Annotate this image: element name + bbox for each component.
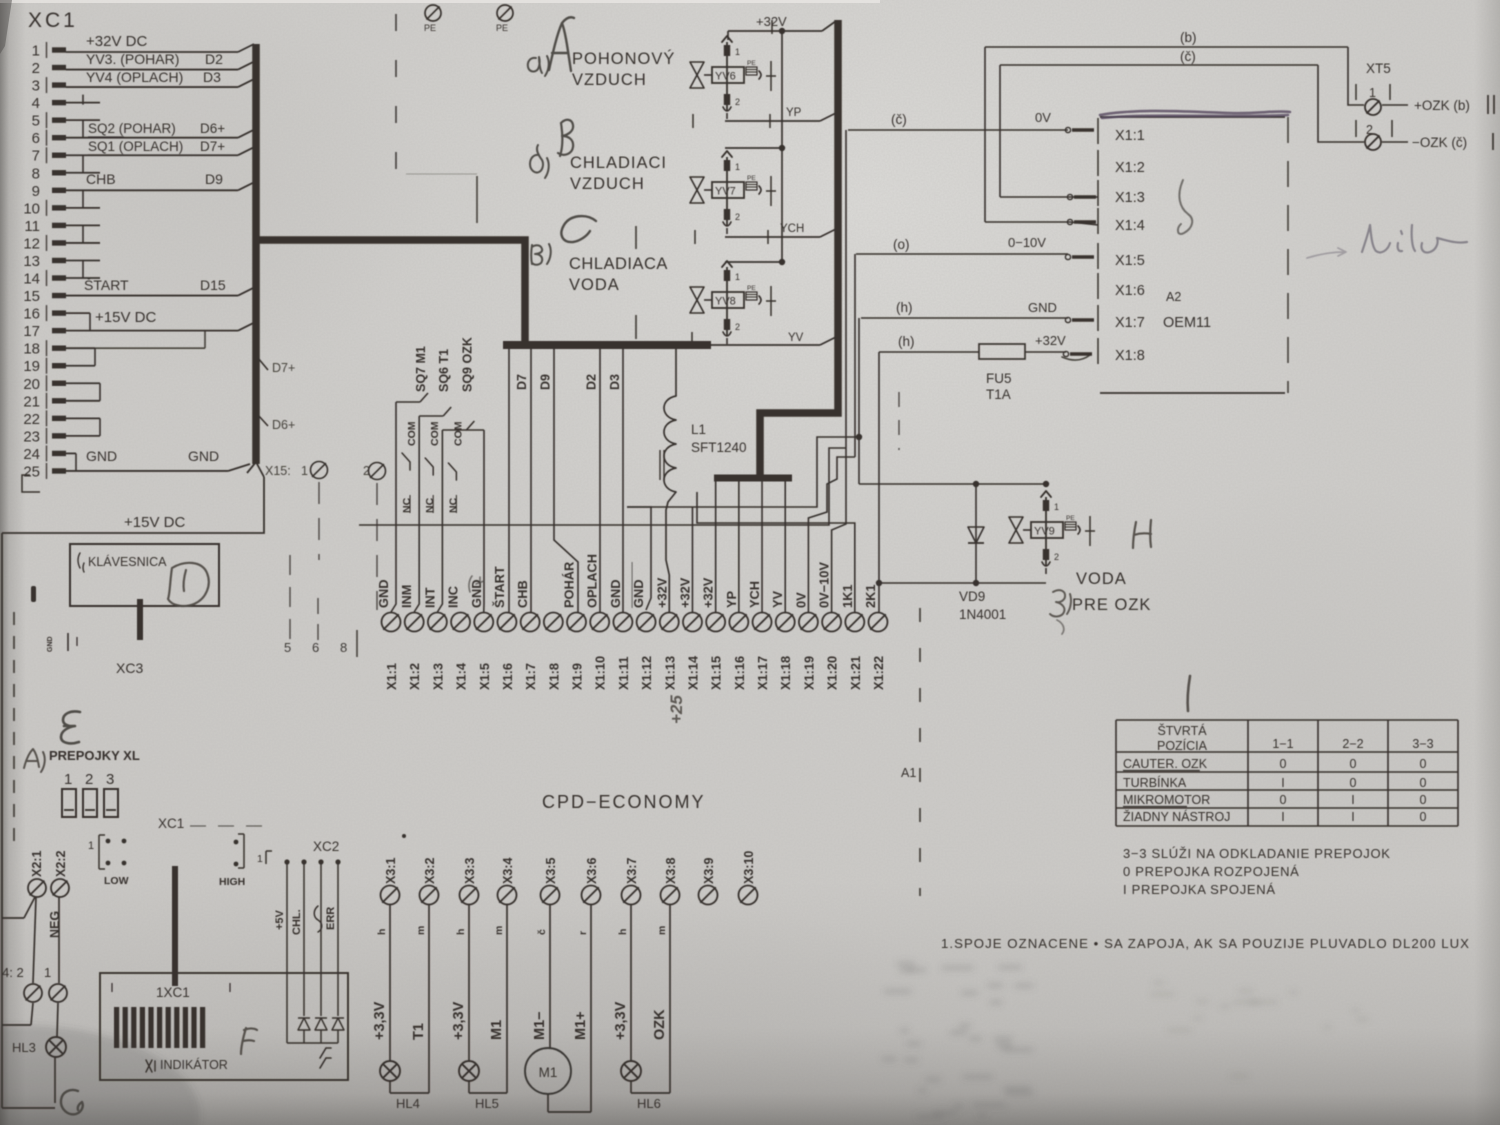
svg-text:h: h [455,929,467,935]
svg-text:INT: INT [422,587,437,608]
svg-text:0: 0 [1420,757,1427,771]
svg-text:1: 1 [735,162,740,172]
svg-text:PE: PE [747,175,756,182]
svg-text:2: 2 [32,60,40,77]
svg-text:X3:3: X3:3 [463,858,477,884]
svg-text:YV3. (POHAR): YV3. (POHAR) [86,51,179,67]
svg-text:X3:1: X3:1 [384,858,398,884]
svg-text:YV9: YV9 [1034,526,1055,538]
svg-text:11: 11 [24,218,40,235]
svg-text:YV4 (OPLACH): YV4 (OPLACH) [86,69,183,85]
svg-text:COM: COM [452,421,464,446]
svg-text:X1:13: X1:13 [662,656,677,690]
svg-text:X1:5: X1:5 [477,663,492,690]
svg-text:0: 0 [1280,793,1287,807]
svg-text:XT5: XT5 [1366,61,1391,76]
svg-text:INM: INM [399,585,414,608]
svg-text:YV7: YV7 [715,186,736,198]
svg-text:+32V: +32V [654,577,669,608]
svg-text:10: 10 [23,200,40,217]
svg-text:X1:4: X1:4 [454,662,469,690]
svg-text:1XC1: 1XC1 [156,985,190,1000]
svg-text:8: 8 [32,165,40,182]
svg-text:INC: INC [446,586,461,608]
svg-text:X1:1: X1:1 [1115,128,1145,144]
svg-text:X3:10: X3:10 [742,851,756,884]
svg-text:ŠTVRTÁ: ŠTVRTÁ [1157,723,1207,738]
svg-text:MIKROMOTOR: MIKROMOTOR [1123,793,1210,807]
svg-text:(b): (b) [1180,30,1197,45]
svg-text:5: 5 [32,113,40,130]
svg-text:PE: PE [747,285,756,292]
svg-text:0: 0 [1350,757,1357,771]
svg-text:A2: A2 [1166,290,1181,304]
svg-text:X1:1: X1:1 [384,663,399,690]
svg-text:INDIKÁTOR: INDIKÁTOR [160,1057,228,1072]
svg-text:X1:3: X1:3 [430,663,445,690]
svg-text:X1:22: X1:22 [871,656,886,690]
svg-text:1: 1 [735,47,740,57]
svg-text:M1+: M1+ [573,1011,589,1040]
svg-text:8: 8 [340,640,347,655]
svg-text:0V−10V: 0V−10V [817,562,832,608]
svg-text:NC: NC [447,497,459,513]
svg-text:GND: GND [376,580,391,608]
svg-text:T1A: T1A [986,387,1011,402]
svg-text:I PREPOJKA SPOJENÁ: I PREPOJKA SPOJENÁ [1123,882,1276,897]
svg-text:22: 22 [23,411,40,428]
svg-text:GND: GND [47,636,54,652]
svg-text:XC2: XC2 [313,839,339,854]
svg-text:0: 0 [1350,776,1357,790]
svg-text:ŠTART: ŠTART [84,277,129,293]
svg-text:YV: YV [788,332,804,344]
svg-text:X15:: X15: [265,464,291,478]
svg-text:24: 24 [23,446,40,463]
svg-text:+32V: +32V [677,577,692,608]
svg-text:X1:17: X1:17 [755,656,770,690]
svg-text:D9: D9 [205,171,223,187]
svg-text:0: 0 [1420,793,1427,807]
svg-text:1: 1 [32,43,40,60]
svg-text:NC: NC [401,497,413,513]
svg-text:+15V DC: +15V DC [124,514,185,531]
svg-text:4: 4 [32,95,40,112]
svg-text:1: 1 [735,272,740,282]
svg-text:CHB: CHB [515,580,530,608]
svg-text:(h): (h) [898,334,915,349]
svg-text:GND: GND [1028,300,1057,315]
svg-text:VODA: VODA [569,276,620,294]
svg-text:M1: M1 [539,1065,558,1080]
svg-text:+32V: +32V [1035,333,1066,348]
svg-text:SFT1240: SFT1240 [691,440,747,455]
svg-text:YV8: YV8 [715,296,736,308]
svg-text:T1: T1 [411,1023,427,1040]
svg-text:D7: D7 [515,374,529,390]
svg-text:−OZK (č): −OZK (č) [1412,135,1467,150]
svg-text:4: 2: 4: 2 [2,965,24,980]
svg-text:D2: D2 [205,51,223,67]
svg-text:20: 20 [23,376,40,393]
svg-text:GND: GND [631,580,646,608]
svg-text:PRE OZK: PRE OZK [1072,596,1151,614]
svg-text:1.SPOJE OZNACENE • SA ZAPO: 1.SPOJE OZNACENE • SA ZAPOJA, AK SA POUZ… [941,936,1470,951]
svg-text:I: I [1351,793,1354,807]
svg-text:X1:9: X1:9 [570,663,585,690]
svg-text:X3:7: X3:7 [625,858,639,884]
svg-text:1: 1 [64,771,72,788]
svg-text:HL6: HL6 [637,1096,661,1111]
svg-text:COM: COM [429,421,441,446]
svg-text:CHL.: CHL. [291,909,303,935]
svg-text:X3:4: X3:4 [501,858,515,884]
svg-text:17: 17 [23,323,40,340]
svg-text:GND: GND [86,448,117,464]
svg-text:D6+: D6+ [200,121,225,136]
svg-text:1: 1 [1369,86,1376,100]
svg-text:1−1: 1−1 [1272,737,1293,751]
svg-text:X1:16: X1:16 [732,656,747,690]
svg-text:D2: D2 [585,374,599,390]
svg-text:0 PREPOJKA ROZPOJENÁ: 0 PREPOJKA ROZPOJENÁ [1123,864,1300,879]
svg-text:PE: PE [747,60,756,67]
svg-text:VZDUCH: VZDUCH [572,71,647,89]
svg-text:18: 18 [23,341,40,358]
svg-text:CHLADIACI: CHLADIACI [570,154,667,172]
svg-text:3−3: 3−3 [1412,737,1433,751]
svg-text:YP: YP [724,590,739,608]
svg-text:0V: 0V [793,592,808,608]
svg-text:X1:10: X1:10 [593,656,608,690]
svg-text:X2:2: X2:2 [54,851,68,877]
svg-text:(č): (č) [1180,49,1196,64]
svg-text:YCH: YCH [747,581,762,608]
svg-text:X1:19: X1:19 [801,656,816,690]
svg-text:X3:6: X3:6 [585,858,599,884]
svg-text:X3:2: X3:2 [423,858,437,884]
svg-text:D6+: D6+ [272,418,295,432]
svg-text:I: I [1351,810,1354,824]
svg-text:PE: PE [1066,515,1075,522]
svg-text:16: 16 [23,306,40,323]
svg-text:1K1: 1K1 [840,585,855,608]
svg-text:ERR: ERR [325,907,337,930]
svg-text:(o): (o) [893,237,910,252]
svg-text:X1:7: X1:7 [1115,315,1145,331]
svg-text:r: r [577,931,589,935]
svg-text:ŽIADNY NÁSTROJ: ŽIADNY NÁSTROJ [1123,809,1230,824]
svg-text:21: 21 [23,393,40,410]
svg-text:D3: D3 [203,69,221,85]
svg-text:1: 1 [44,965,51,980]
svg-text:NC: NC [424,497,436,513]
svg-text:12: 12 [23,235,40,252]
svg-text:PE: PE [424,23,436,33]
svg-text:POHONOVÝ: POHONOVÝ [572,49,675,68]
svg-text:M1: M1 [489,1020,505,1040]
svg-text:+25: +25 [667,695,686,724]
svg-text:2K1: 2K1 [863,585,878,608]
svg-text:+5V: +5V [274,909,286,930]
svg-text:2: 2 [735,212,740,222]
svg-text:23: 23 [23,428,40,445]
svg-text:CHLADIACA: CHLADIACA [569,255,668,273]
svg-text:SQ1 (OPLACH): SQ1 (OPLACH) [88,139,183,154]
svg-text:D9: D9 [538,374,552,390]
svg-text:X1:15: X1:15 [709,656,724,690]
svg-text:X1:3: X1:3 [1115,190,1145,206]
svg-text:X1:21: X1:21 [848,656,863,690]
svg-text:6: 6 [32,130,40,147]
svg-text:3: 3 [32,78,40,95]
svg-text:X1:8: X1:8 [546,663,561,690]
svg-text:m: m [656,926,668,935]
svg-text:YCH: YCH [780,223,804,235]
svg-text:13: 13 [23,253,40,270]
svg-text:X3:5: X3:5 [544,858,558,884]
svg-text:6: 6 [312,640,319,655]
svg-text:VZDUCH: VZDUCH [570,175,645,193]
svg-text:+32V DC: +32V DC [86,33,147,50]
svg-text:ŠTART: ŠTART [492,566,507,608]
svg-text:FU5: FU5 [986,371,1012,386]
svg-text:2: 2 [735,97,740,107]
svg-text:SQ6 T1: SQ6 T1 [437,349,451,392]
svg-text:X1:20: X1:20 [825,656,840,690]
svg-text:YP: YP [786,107,802,119]
svg-text:X1:5: X1:5 [1115,253,1145,269]
svg-text:D7+: D7+ [200,139,225,154]
svg-text:X1:6: X1:6 [1115,283,1145,299]
svg-text:XC1: XC1 [28,9,78,32]
svg-text:POHÁR: POHÁR [562,562,577,608]
svg-text:5: 5 [284,640,291,655]
svg-text:0: 0 [1420,776,1427,790]
svg-text:2: 2 [1054,552,1059,562]
svg-text:M1−: M1− [532,1011,548,1040]
svg-text:0: 0 [1420,810,1427,824]
svg-text:+OZK (b): +OZK (b) [1414,98,1470,113]
svg-text:L1: L1 [691,422,706,437]
svg-text:15: 15 [23,288,40,305]
svg-text:YV: YV [770,590,785,608]
svg-text:X1:8: X1:8 [1115,348,1145,364]
svg-text:PE: PE [496,23,508,33]
svg-text:7: 7 [32,148,40,165]
svg-text:HL4: HL4 [396,1096,420,1111]
svg-text:2−2: 2−2 [1342,737,1363,751]
svg-text:X1:2: X1:2 [407,663,422,690]
svg-text:I: I [1281,776,1284,790]
svg-text:VD9: VD9 [959,589,985,604]
svg-text:2: 2 [735,322,740,332]
svg-text:h: h [617,929,629,935]
svg-text:X1:4: X1:4 [1115,218,1145,234]
svg-text:1: 1 [1054,502,1059,512]
svg-text:3−3 SLÚŽI NA ODKLADANIE PR: 3−3 SLÚŽI NA ODKLADANIE PREPOJOK [1123,846,1391,861]
svg-text:CHB: CHB [86,171,116,187]
svg-text:0−10V: 0−10V [1008,235,1046,250]
svg-text:GND: GND [188,448,219,464]
svg-text:X3:8: X3:8 [664,858,678,884]
svg-text:XC1: XC1 [158,816,184,831]
svg-text:SQ7 M1: SQ7 M1 [414,346,428,392]
svg-text:+3,3V: +3,3V [613,1001,629,1040]
svg-text:X3:9: X3:9 [702,858,716,884]
svg-text:X1:6: X1:6 [500,663,515,690]
svg-text:č: č [536,929,548,935]
svg-text:1: 1 [88,840,94,852]
svg-text:X2:1: X2:1 [30,851,44,877]
svg-text:COM: COM [406,421,418,446]
svg-text:1: 1 [257,853,263,865]
svg-text:0V: 0V [1035,110,1051,125]
svg-text:3: 3 [106,771,114,788]
svg-text:14: 14 [23,271,40,288]
svg-text:9: 9 [32,183,40,200]
svg-text:GND: GND [608,580,623,608]
svg-text:+3,3V: +3,3V [372,1001,388,1040]
svg-text:NEG: NEG [48,911,62,938]
svg-text:OZK: OZK [652,1009,668,1040]
svg-text:+3,3V: +3,3V [451,1001,467,1040]
svg-text:HL3: HL3 [12,1040,36,1055]
svg-text:25: 25 [23,463,40,480]
svg-text:0: 0 [1280,757,1287,771]
svg-text:19: 19 [23,358,40,375]
svg-text:D15: D15 [200,277,226,293]
svg-text:OPLACH: OPLACH [585,554,600,608]
svg-text:+32V: +32V [701,577,716,608]
svg-text:SQ9 OZK: SQ9 OZK [460,337,474,392]
svg-text:CAUTER. OZK: CAUTER. OZK [1123,757,1208,771]
svg-text:HIGH: HIGH [219,876,245,888]
svg-text:A1: A1 [901,766,916,780]
svg-text:X1:14: X1:14 [685,655,700,690]
svg-text:D3: D3 [608,374,622,390]
svg-text:HL5: HL5 [475,1096,499,1111]
svg-text:X1:18: X1:18 [778,656,793,690]
svg-text:D7+: D7+ [272,361,295,375]
svg-text:+15V DC: +15V DC [95,309,156,326]
svg-text:1: 1 [301,464,308,478]
svg-text:KLÁVESNICA: KLÁVESNICA [88,554,167,569]
svg-text:TURBÍNKA: TURBÍNKA [1123,775,1187,790]
svg-text:LOW: LOW [104,875,129,887]
svg-text:m: m [415,926,427,935]
svg-text:CPD−ECONOMY: CPD−ECONOMY [542,792,706,812]
svg-text:(h): (h) [896,300,913,315]
svg-text:SQ2 (POHAR): SQ2 (POHAR) [88,121,176,136]
svg-text:YV6: YV6 [715,71,736,83]
svg-text:X1:7: X1:7 [523,663,538,690]
svg-text:X1:11: X1:11 [616,657,631,690]
svg-text:XC3: XC3 [116,660,143,676]
svg-text:m: m [493,926,505,935]
svg-text:PREPOJKY XL: PREPOJKY XL [49,748,140,763]
svg-text:(č): (č) [891,112,907,127]
svg-text:X1:2: X1:2 [1115,160,1145,176]
svg-text:OEM11: OEM11 [1163,315,1211,331]
svg-text:1N4001: 1N4001 [959,607,1006,622]
svg-text:I: I [1281,810,1284,824]
svg-text:2: 2 [85,771,93,788]
svg-text:h: h [376,929,388,935]
svg-text:X1:12: X1:12 [639,656,654,690]
svg-text:POZÍCIA: POZÍCIA [1157,738,1208,753]
svg-text:VODA: VODA [1076,570,1127,588]
